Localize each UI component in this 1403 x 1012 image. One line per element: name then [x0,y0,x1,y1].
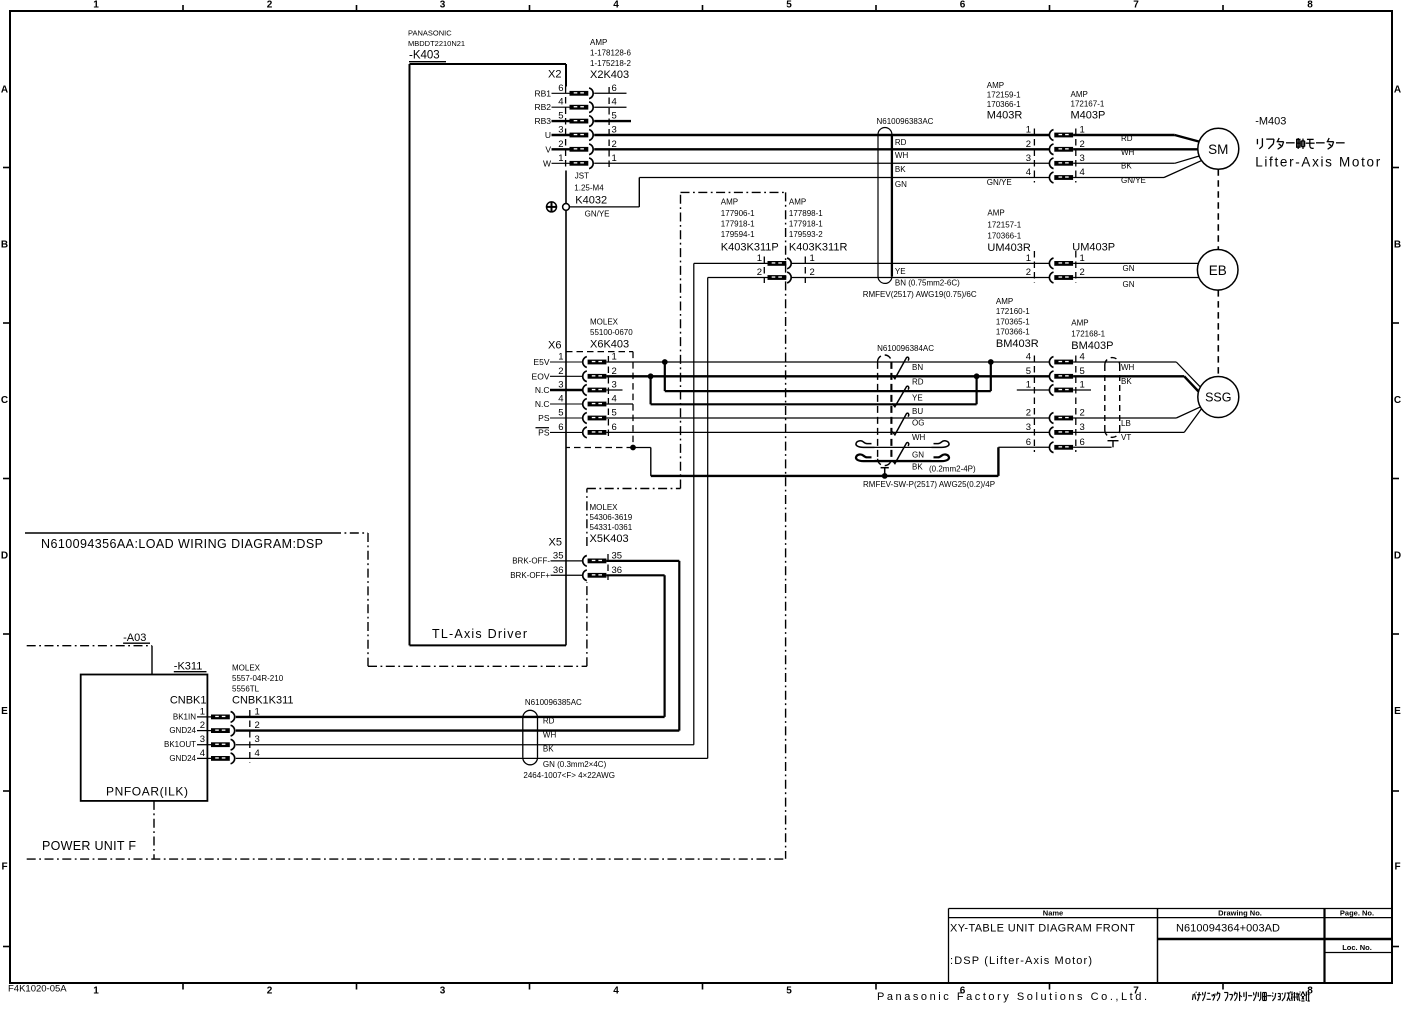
svg-text:D: D [1,551,8,562]
svg-text:A: A [1394,85,1401,96]
svg-text:1: 1 [1026,253,1031,264]
svg-text:172159-1: 172159-1 [987,91,1021,100]
wire BM403P-2 to encoder SSG [1073,417,1176,419]
svg-text:6: 6 [1026,437,1031,448]
svg-text:UM403P: UM403P [1072,241,1115,253]
svg-text:4: 4 [1080,352,1085,363]
svg-text:4: 4 [255,748,260,759]
svg-text:K403K311P: K403K311P [721,241,779,253]
svg-text:5: 5 [1026,366,1031,377]
svg-text:WH: WH [1121,363,1135,372]
svg-text:-K403: -K403 [409,50,440,62]
power unit F boundary [27,858,786,860]
svg-text:B: B [1,240,8,251]
svg-text:2: 2 [757,267,762,278]
svg-text:AMP: AMP [789,198,806,207]
svg-text:AMP: AMP [1071,319,1088,328]
svg-text:BM403P: BM403P [1071,340,1113,352]
svg-text:1: 1 [810,253,815,264]
svg-text:Panasonic Factory Solutions Co: Panasonic Factory Solutions Co.,Ltd. [877,991,1147,1003]
svg-text:5: 5 [612,408,617,419]
svg-text:TL-Axis Driver: TL-Axis Driver [432,627,527,641]
svg-text:1: 1 [757,253,762,264]
wire BM403R-1 stub [1017,389,1049,391]
svg-text:1: 1 [200,706,205,717]
connector X2 right separator [608,87,610,170]
svg-text:MOLEX: MOLEX [590,318,619,327]
svg-text:C: C [1394,395,1401,406]
svg-text:4: 4 [613,986,619,997]
svg-text:GN: GN [912,451,924,460]
svg-text:55100-0670: 55100-0670 [590,328,633,337]
svg-text:4: 4 [1026,352,1031,363]
svg-text:1: 1 [1080,253,1085,264]
wire K403K311P-2 from CNBK1-4 [708,277,768,279]
svg-text:177918-1: 177918-1 [721,220,755,229]
svg-text:3: 3 [1080,422,1085,433]
svg-text:BRK-OFF+: BRK-OFF+ [510,571,550,580]
svg-text:3: 3 [1080,153,1085,164]
wire PS-bar X6-6 to BM403R-3 [606,431,1049,433]
svg-text:RMFEV-SW-P(2517) AWG25(0.2)/4P: RMFEV-SW-P(2517) AWG25(0.2)/4P [863,480,995,489]
svg-text:AMP: AMP [996,297,1013,306]
svg-text:3: 3 [440,0,446,11]
connector X6 dashed housing box [566,351,633,353]
svg-text:BK: BK [912,463,923,472]
svg-text:2: 2 [1026,267,1031,278]
svg-text:170365-1: 170365-1 [996,317,1030,326]
svg-text:X5: X5 [549,537,562,549]
svg-text:2: 2 [1026,408,1031,419]
svg-text:4: 4 [1026,167,1031,178]
svg-text:BK1OUT: BK1OUT [164,740,196,749]
cable oval at BM403P [1105,358,1120,365]
svg-text:F: F [1,862,7,873]
svg-text:JST: JST [575,172,589,181]
wire N.C stub X6-4 [606,403,633,405]
svg-text:UM403R: UM403R [987,242,1030,254]
dashed link EB to SSG [1217,290,1219,376]
svg-text:2: 2 [1080,408,1085,419]
svg-text:X2K403: X2K403 [590,69,629,81]
svg-text:1: 1 [612,153,617,164]
svg-text:EB: EB [1209,263,1227,278]
overline on PS-bar label [536,427,550,429]
svg-text:5: 5 [786,0,792,11]
connector M403 separators [1033,129,1035,183]
junction node on EOV wire [648,373,654,379]
svg-text:V: V [545,144,551,154]
svg-text:XY-TABLE UNIT DIAGRAM FRONT: XY-TABLE UNIT DIAGRAM FRONT [950,923,1135,935]
connector K403K311 separators [763,257,765,284]
svg-text:AMP: AMP [590,38,607,47]
wire M403P-3 to motor SM [1073,162,1175,164]
shield tie at BM403P-6 [1108,440,1119,442]
svg-text:2464-1007<F> 4×22AWG: 2464-1007<F> 4×22AWG [523,771,615,780]
svg-text:GND24: GND24 [169,726,196,735]
svg-text:3: 3 [440,986,446,997]
dash-dot lead K311 box to power unit boundary [153,801,155,859]
svg-text:GN: GN [1123,280,1135,289]
shield pigtail BK [856,454,875,461]
svg-text:MOLEX: MOLEX [232,664,261,673]
svg-text:2: 2 [558,366,563,377]
svg-text:E: E [1,706,8,717]
svg-text:172167-1: 172167-1 [1071,100,1105,109]
svg-text:4: 4 [1080,167,1085,178]
svg-text:MBDDT2210N21: MBDDT2210N21 [408,39,465,48]
junction node on EOV wire right [974,373,980,379]
svg-text:AMP: AMP [987,81,1004,90]
svg-text:(0.2mm2-4P): (0.2mm2-4P) [929,464,976,473]
connector X6 right separator [607,356,609,437]
shield tie of cable 384AC [881,467,889,469]
svg-text:3: 3 [612,380,617,391]
svg-text:YE: YE [895,267,906,276]
svg-text:GN: GN [1123,264,1135,273]
svg-text:PS: PS [538,413,550,423]
lead line -A03 to K311 box [151,646,153,675]
junction node on E5V wire right [988,359,994,365]
svg-text:1: 1 [558,153,563,164]
svg-text:4: 4 [558,97,563,108]
wire RD CNBK1-1 (BK1IN) [236,716,665,718]
wire BM403P-3 to encoder SSG [1073,431,1184,433]
svg-text:35: 35 [553,550,564,561]
svg-text:3: 3 [1026,153,1031,164]
svg-text:Name: Name [1043,909,1063,918]
wire E5V X6-1 to BM403R-4 [606,361,1049,363]
svg-text:172168-1: 172168-1 [1071,330,1105,339]
connector BM403 separators [1033,356,1035,453]
svg-text:BK1IN: BK1IN [173,712,196,721]
svg-text:5: 5 [558,408,563,419]
svg-text:N610094356AA:LOAD WIRING DIAGR: N610094356AA:LOAD WIRING DIAGRAM:DSP [41,537,323,551]
svg-text:170366-1: 170366-1 [987,232,1021,241]
wire RB2 stub [594,106,626,108]
svg-text:3: 3 [200,734,205,745]
svg-text:4: 4 [613,0,619,11]
wire EOV X6-2 to BM403R-5 [606,375,1049,377]
svg-text:BU: BU [912,407,923,416]
svg-text:4: 4 [612,394,617,405]
wire W phase X2-1 to M403R-3 [594,162,1049,164]
svg-text:6: 6 [612,83,617,94]
cable N610096384AC oval [878,355,892,362]
svg-text:1: 1 [1026,125,1031,136]
svg-text:35: 35 [612,550,623,561]
title block [949,908,1393,910]
wire M403P-4 to motor SM [1073,177,1164,179]
wire GN/YE ground K4032 to M403R-4 [569,206,639,208]
svg-text:BN: BN [912,363,923,372]
connector UM403 separators [1033,251,1035,283]
svg-text:6: 6 [612,422,617,433]
svg-text:N610096383AC: N610096383AC [877,117,934,126]
terminal K4032 circle [563,204,570,211]
svg-text:SM: SM [1208,142,1228,157]
svg-text:AMP: AMP [987,209,1004,218]
wire BM403P-5 to encoder SSG [1073,375,1184,377]
svg-text:2: 2 [200,720,205,731]
svg-text:RB3: RB3 [534,116,551,126]
svg-text:Lifter-Axis Motor: Lifter-Axis Motor [1255,155,1381,170]
svg-text:1: 1 [1080,380,1085,391]
svg-text:3: 3 [255,734,260,745]
svg-text:X5K403: X5K403 [590,533,629,545]
svg-text:SSG: SSG [1205,391,1231,405]
wire UM403P-2 to brake EB [1073,277,1199,279]
svg-text:2: 2 [1080,267,1085,278]
svg-text:AMP: AMP [1071,90,1088,99]
svg-text:2: 2 [267,986,273,997]
svg-text:F4K1020-05A: F4K1020-05A [8,984,67,995]
svg-text:K4032: K4032 [575,195,607,207]
boundary -A03 [27,645,152,647]
wire UM403P-1 to brake EB [1073,262,1198,264]
connector X5 right separator [607,554,609,580]
brake EB circle [1197,249,1238,290]
wire K403K311P-1 from CNBK1-3 [694,262,768,264]
svg-text:RD: RD [912,378,924,387]
wire RB3 stub [594,120,631,122]
svg-text:6: 6 [558,83,563,94]
svg-text:WH: WH [543,731,557,740]
svg-text:EOV: EOV [532,371,550,381]
wire BK CNBK1-3 (BK1OUT) [236,744,694,746]
wire shield return X6 housing to BM403R-6 [633,447,651,449]
svg-text:BRK-OFF-: BRK-OFF- [512,556,550,565]
motor SM circle [1198,128,1239,169]
svg-text:179593-2: 179593-2 [789,230,823,239]
svg-text:M403P: M403P [1071,110,1106,122]
svg-text:OG: OG [912,419,924,428]
svg-text:N610096384AC: N610096384AC [877,344,934,353]
svg-text:E5V: E5V [533,357,549,367]
svg-text:36: 36 [612,565,623,576]
svg-text:WH: WH [912,433,926,442]
wire M403P-1 to motor SM [1073,134,1175,136]
wire YE K403K311R-1 to UM403R-1 [792,262,1049,264]
svg-text:1: 1 [1026,380,1031,391]
svg-text:1: 1 [558,352,563,363]
wire U phase X2-3 to M403R-1 [594,134,1049,136]
svg-text:E: E [1394,706,1401,717]
svg-text::DSP (Lifter-Axis Motor): :DSP (Lifter-Axis Motor) [950,955,1092,967]
svg-text:172157-1: 172157-1 [987,221,1021,230]
svg-text:GND24: GND24 [169,754,196,763]
svg-text:BK: BK [1121,377,1132,386]
svg-text:8: 8 [1307,0,1313,11]
svg-text:RD: RD [895,138,907,147]
load wiring diagram boundary [25,532,332,534]
twisted pair marks cable 384AC [892,357,908,379]
wire BRK-OFF+ X5-36 to CNBK1-1 [606,574,664,576]
svg-text:GN/YE: GN/YE [987,178,1012,187]
label Lifter-Axis Motor katakana [1256,139,1258,144]
svg-text:CNBK1: CNBK1 [170,695,207,707]
encoder SSG circle [1198,377,1239,418]
svg-text:1: 1 [93,986,99,997]
dashed link SM to EB [1217,169,1219,249]
cable N610096385AC oval [523,710,538,717]
svg-text:Loc. No.: Loc. No. [1342,943,1372,952]
power unit module PNFOAR(ILK) box K311 [81,675,208,801]
svg-text:N610096385AC: N610096385AC [525,698,582,707]
svg-text:-K311: -K311 [174,660,203,672]
svg-text:YE: YE [912,394,923,403]
svg-text:3: 3 [1026,422,1031,433]
svg-text:170366-1: 170366-1 [996,327,1030,336]
svg-text:M403R: M403R [987,110,1023,122]
svg-text:6: 6 [558,422,563,433]
svg-text:X6K403: X6K403 [590,338,629,350]
svg-text:RB1: RB1 [534,88,551,98]
svg-text:VT: VT [1121,433,1131,442]
svg-text:179594-1: 179594-1 [721,230,755,239]
svg-text:4: 4 [558,394,563,405]
wire RB1 stub [594,92,626,94]
svg-text:54331-0361: 54331-0361 [590,523,633,532]
svg-text:177898-1: 177898-1 [789,209,823,218]
connector CNBK1 right separator [249,710,251,763]
svg-text:36: 36 [553,565,564,576]
svg-text:D: D [1394,551,1401,562]
svg-text:AMP: AMP [721,198,738,207]
svg-text:5556TL: 5556TL [232,685,260,694]
svg-text:1-175218-2: 1-175218-2 [590,59,631,68]
wire BU jog [649,376,651,404]
svg-text:PNFOAR(ILK): PNFOAR(ILK) [106,785,188,799]
wire BN K403K311R-2 to UM403R-2 [792,277,1049,279]
svg-text:BK: BK [543,745,554,754]
svg-text:GN/YE: GN/YE [585,210,610,219]
wire BRK-OFF- X5-35 to CNBK1-2 [606,560,679,562]
svg-text:W: W [543,158,551,168]
svg-text:172160-1: 172160-1 [996,307,1030,316]
wire PS X6-5 to BM403R-2 [606,417,1049,419]
svg-text:BK: BK [895,165,906,174]
svg-text:A: A [1,85,8,96]
svg-text:K403K311R: K403K311R [789,241,848,253]
svg-text:RB2: RB2 [534,102,551,112]
svg-text:1: 1 [93,0,99,11]
svg-text:4: 4 [612,97,617,108]
svg-text:7: 7 [1133,0,1139,11]
svg-text:B: B [1394,240,1401,251]
protective earth symbol [547,202,557,212]
junction node shield tie [882,473,888,479]
svg-text:C: C [1,395,8,406]
svg-text:BM403R: BM403R [996,338,1039,350]
svg-text:6: 6 [1080,437,1085,448]
svg-text:RMFEV(2517) AWG19(0.75)/6C: RMFEV(2517) AWG19(0.75)/6C [863,290,977,299]
svg-text:2: 2 [267,0,273,11]
svg-text:N610094364+003AD: N610094364+003AD [1176,923,1280,935]
svg-text:1-178128-6: 1-178128-6 [590,49,631,58]
svg-text:1: 1 [612,352,617,363]
svg-text:X2: X2 [548,69,561,81]
svg-text:BN (0.75mm2-6C): BN (0.75mm2-6C) [895,278,960,287]
svg-text:N.C: N.C [535,399,550,409]
wire BM403P-4 to encoder SSG [1073,361,1176,363]
svg-text:PANASONIC: PANASONIC [408,29,452,38]
wire M403P-2 to motor SM [1073,148,1198,150]
svg-text:-M403: -M403 [1255,116,1286,128]
company name katakana [1191,994,1194,1000]
svg-text:6: 6 [960,0,966,11]
svg-text:MOLEX: MOLEX [590,503,619,512]
svg-text:2: 2 [1026,139,1031,150]
svg-text:Page. No.: Page. No. [1340,909,1374,918]
svg-text:N.C: N.C [535,385,550,395]
junction node on E5V wire [662,359,668,365]
svg-text:170366-1: 170366-1 [987,100,1021,109]
svg-text:F: F [1394,862,1400,873]
wire GN CNBK1-4 (GND24) [236,757,708,759]
cable N610096383AC oval [878,127,892,134]
junction node on X6 housing [630,445,636,451]
svg-text:Drawing No.: Drawing No. [1218,909,1262,918]
svg-text:U: U [545,130,551,140]
svg-text:5: 5 [786,986,792,997]
svg-text:-A03: -A03 [123,632,146,644]
wire YE jog [664,362,666,391]
wire WH CNBK1-2 (GND24) [236,729,680,731]
svg-text:LB: LB [1121,419,1131,428]
svg-text:X6: X6 [548,340,561,352]
svg-text:WH: WH [895,151,909,160]
TL-Axis Driver box K403 [410,63,567,65]
svg-text:2: 2 [810,267,815,278]
svg-text:PS: PS [538,427,550,437]
svg-text:GN (0.3mm2×4C): GN (0.3mm2×4C) [543,760,607,769]
wire V phase X2-2 to M403R-2 [594,148,1049,150]
svg-text:54306-3619: 54306-3619 [590,513,633,522]
svg-text:5557-04R-210: 5557-04R-210 [232,674,284,683]
svg-text:GN: GN [895,180,907,189]
svg-text:177918-1: 177918-1 [789,220,823,229]
svg-text:4: 4 [200,748,205,759]
svg-text:POWER UNIT F: POWER UNIT F [42,839,136,853]
shield pigtail GN [856,441,875,448]
svg-text:1.25-M4: 1.25-M4 [574,184,604,193]
svg-text:CNBK1K311: CNBK1K311 [232,695,294,707]
wire BM403P-6 shield stub [1073,446,1112,448]
wire N.C stub X6-3 [606,389,622,391]
svg-text:177906-1: 177906-1 [721,209,755,218]
